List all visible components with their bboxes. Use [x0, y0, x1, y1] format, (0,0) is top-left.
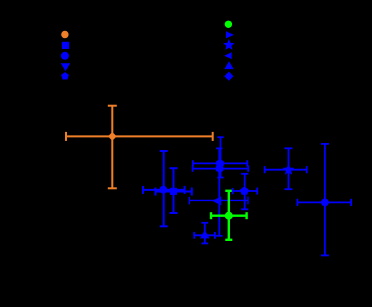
errorbar point P2: blue circle: [143, 151, 185, 226]
legend entry 1: orange circle: [61, 31, 68, 38]
legend entry 5: blue pentagon: [61, 72, 69, 79]
errorbar point P1: orange diamond: [66, 106, 213, 189]
legend entry 8: blue star: [225, 41, 233, 49]
legend entry 6: green hexagon: [225, 21, 232, 28]
errorbar point P11: blue circle right: [297, 144, 351, 256]
legend entry 7: blue right-triangle: [226, 31, 234, 38]
errorbar point P8: green circle: [211, 191, 247, 240]
legend column 1: [61, 31, 70, 80]
errorbar point P5: blue hexagon lower: [193, 148, 249, 235]
errorbar point P9: blue pentagon: [233, 174, 258, 210]
errorbar point P3: blue square: [156, 168, 192, 213]
legend entry 4: blue down-triangle: [61, 63, 70, 71]
legend entry 2: blue square: [62, 42, 69, 49]
errorbar point P7: blue small up-triangle: [194, 223, 215, 244]
errorbar point P4: blue hexagon upper: [193, 137, 247, 177]
legend entry 11: blue diamond: [224, 72, 233, 81]
legend entry 3: blue circle: [61, 52, 69, 60]
legend column 2: [224, 21, 234, 81]
errorbar point P10: blue star: [265, 148, 307, 189]
errorbar point P6: blue left-triangle: [189, 197, 248, 205]
legend entry 10: blue up-triangle: [224, 61, 233, 69]
legend entry 9: blue left-triangle: [224, 52, 232, 59]
